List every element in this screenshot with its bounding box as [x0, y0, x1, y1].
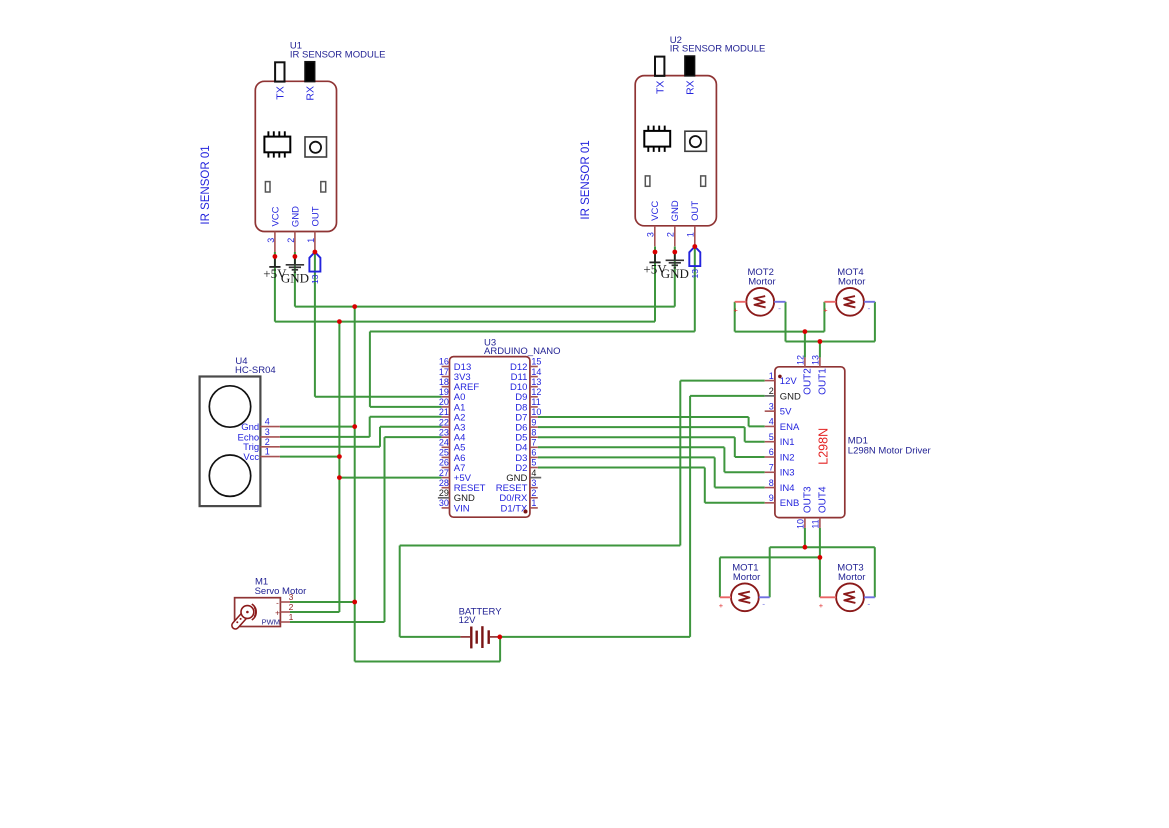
svg-text:GND: GND	[670, 200, 681, 221]
Arduino Nano U3 body	[450, 357, 530, 518]
U3 pin 22 A3 stub	[442, 426, 450, 428]
wire IN2 into pin6	[735, 456, 765, 458]
U3 pin 12 D9 stub	[530, 396, 538, 398]
svg-text:8: 8	[769, 478, 774, 488]
wire U4 Gnd into GND bus	[280, 426, 355, 428]
wire MOT2 right drop	[785, 302, 787, 342]
wire U4 Vcc into +5V bus	[280, 456, 340, 458]
U3 pin 3 RESET stub	[530, 487, 538, 489]
svg-text:22: 22	[439, 417, 449, 427]
svg-text:14: 14	[531, 367, 541, 377]
MD1 pin 10 OUT3 stub	[804, 518, 806, 528]
MD1 pin 1 12V stub	[765, 380, 775, 382]
wire D6-IN1 vertical	[744, 427, 746, 442]
wire A4 into pin23	[385, 436, 442, 438]
wire MOT2 left drop	[734, 302, 736, 332]
junction U1 GND	[293, 254, 298, 259]
U4 pin 4 Gnd stub	[260, 426, 280, 428]
wire A1 into pin20	[370, 406, 442, 408]
wire U2OUT to A1 horizontal	[370, 331, 695, 333]
wire Echo to A2 vertical	[369, 417, 371, 437]
MOT1 left terminal lead	[720, 596, 731, 598]
net label flag 13 at U2 OUT	[689, 247, 700, 279]
svg-text:1: 1	[306, 238, 316, 243]
wire MOT1 right drop	[769, 547, 771, 597]
servo motor M1 body	[235, 598, 281, 627]
svg-text:OUT3: OUT3	[802, 486, 813, 513]
junction OUT1	[818, 339, 823, 344]
U3 pin 15 D12 stub	[530, 366, 538, 368]
wire OUT3 from pin10	[804, 528, 806, 547]
svg-text:IR SENSOR 01: IR SENSOR 01	[200, 145, 212, 224]
svg-text:25: 25	[439, 448, 449, 458]
svg-text:6: 6	[531, 448, 536, 458]
svg-text:-: -	[276, 599, 279, 608]
wire A1 vertical	[369, 332, 371, 407]
wire U4 Trig horizontal	[280, 446, 380, 448]
svg-text:13: 13	[531, 377, 541, 387]
U3 pin 8 D5 stub	[530, 436, 538, 438]
wire U1 GND drop	[294, 252, 296, 307]
wire 12V horizontal	[400, 545, 681, 547]
svg-text:16: 16	[439, 357, 449, 367]
svg-text:GND: GND	[661, 266, 689, 281]
U2 IC chip drawing	[644, 126, 670, 152]
U1 pad drawings	[265, 182, 325, 192]
svg-text:1: 1	[769, 371, 774, 381]
MOT4 left terminal lead	[824, 301, 836, 303]
wire ENA into pin4	[749, 425, 765, 427]
U3 pin 11 D8 stub	[530, 406, 538, 408]
wire U1 VCC drop	[274, 252, 276, 322]
svg-text:IR SENSOR 01: IR SENSOR 01	[580, 140, 592, 219]
svg-text:PWM: PWM	[262, 618, 280, 627]
wire D5 horizontal	[538, 436, 735, 438]
svg-text:2: 2	[666, 232, 676, 237]
U3 pin 5 D2 stub	[530, 467, 538, 469]
svg-text:OUT: OUT	[690, 201, 701, 221]
svg-text:+: +	[819, 601, 824, 610]
wire IN4 into pin8	[715, 487, 765, 489]
wire IN1 into pin5	[745, 441, 765, 443]
wire +5V bus horizontal	[275, 321, 655, 323]
MOT2 winding zigzag	[754, 296, 765, 307]
wire D2-ENB vertical	[704, 468, 706, 503]
svg-text:3: 3	[531, 478, 536, 488]
MD1 pin 2 GND stub	[765, 395, 775, 397]
M1 horn arm drawing	[235, 612, 247, 625]
junction +5V at U4 Vcc	[337, 454, 342, 459]
svg-text:+: +	[734, 305, 739, 314]
wire D5-IN2 vertical	[734, 437, 736, 457]
svg-text:12V: 12V	[459, 615, 477, 626]
M1 pin 1 stub	[280, 621, 290, 623]
svg-text:11: 11	[811, 519, 821, 528]
svg-text:2: 2	[265, 437, 270, 447]
U2 TX connector	[655, 57, 664, 76]
M1 horn centre dot	[246, 611, 249, 614]
wire D3 horizontal	[538, 456, 715, 458]
wire +5V bus vertical	[338, 322, 340, 612]
U3 pin 4 GND stub	[530, 477, 541, 479]
svg-text:Vcc: Vcc	[243, 452, 259, 463]
svg-text:3: 3	[289, 592, 294, 602]
MOT4 right terminal lead	[864, 301, 875, 303]
U3 pin 28 RESET stub	[442, 487, 450, 489]
wire D3-IN4 vertical	[714, 457, 716, 487]
wire OUT3 horizontal	[770, 546, 875, 548]
svg-text:27: 27	[439, 468, 449, 478]
svg-text:OUT4: OUT4	[817, 486, 828, 513]
motor MOT4 circle	[836, 288, 864, 316]
svg-text:21: 21	[439, 407, 449, 417]
svg-text:5V: 5V	[780, 407, 792, 418]
U3 pin 1 D1/TX stub	[530, 507, 538, 509]
MD1 pin 6 IN2 stub	[765, 456, 775, 458]
U3 pin 10 D7 stub	[530, 416, 538, 418]
wire U4 Echo horizontal	[280, 436, 370, 438]
wire U2 VCC drop	[654, 247, 656, 322]
MD1 pin 12 OUT2 stub	[804, 357, 806, 366]
junction +5V at pin27 wire	[337, 475, 342, 480]
svg-text:7: 7	[531, 438, 536, 448]
svg-text:1: 1	[531, 498, 536, 508]
svg-text:13: 13	[690, 269, 700, 279]
svg-text:29: 29	[439, 488, 449, 498]
wire D4 horizontal	[538, 446, 725, 448]
U2 pin 1 stub	[694, 226, 696, 247]
U1 pin 1 stub	[314, 232, 316, 253]
wire GND bus vertical	[354, 307, 356, 662]
U3 pin 20 A1 stub	[442, 406, 450, 408]
MD1 pin 5 IN1 stub	[765, 441, 775, 443]
U2 pad drawings	[645, 176, 705, 186]
svg-text:OUT1: OUT1	[817, 368, 828, 395]
U3 pin 18 AREF stub	[442, 386, 450, 388]
wire OUT4 from pin11	[819, 528, 821, 558]
wire IN3 into pin7	[724, 471, 764, 473]
MOT1 right terminal lead	[759, 596, 770, 598]
svg-text:-: -	[867, 303, 870, 313]
wire A2 into pin21	[370, 416, 442, 418]
svg-text:17: 17	[439, 367, 449, 377]
svg-text:Mortor: Mortor	[733, 572, 760, 583]
U3 pin 23 A4 stub	[442, 436, 450, 438]
U1 pin 3 stub	[274, 232, 276, 253]
svg-text:GND: GND	[780, 391, 801, 402]
svg-text:1: 1	[686, 232, 696, 237]
wire ENB into pin9	[705, 502, 765, 504]
U1 LED drawing	[305, 137, 327, 157]
U1 pin 2 stub	[294, 232, 296, 253]
svg-text:7: 7	[769, 462, 774, 472]
svg-text:3: 3	[266, 238, 276, 243]
wire OUT2 horizontal	[735, 331, 825, 333]
M1 pin 3 stub	[280, 601, 290, 603]
wire Trig to A3 vertical	[379, 427, 381, 447]
U4 pin 1 Vcc stub	[260, 456, 280, 458]
svg-text:-: -	[867, 598, 870, 608]
wire D7-ENA vertical	[748, 417, 750, 426]
svg-text:28: 28	[439, 478, 449, 488]
U3 pin 21 A2 stub	[442, 416, 450, 418]
svg-text:12: 12	[531, 387, 541, 397]
svg-text:IN3: IN3	[780, 468, 795, 479]
svg-text:Mortor: Mortor	[748, 276, 775, 287]
svg-text:20: 20	[439, 397, 449, 407]
U3 pin 13 D10 stub	[530, 386, 538, 388]
U3 pin1 origin dot	[524, 510, 528, 514]
motor MOT2 circle	[746, 288, 774, 316]
svg-text:4: 4	[531, 468, 536, 478]
svg-text:Mortor: Mortor	[838, 572, 865, 583]
motor MOT3 circle	[836, 583, 864, 611]
M1 horn arm dots	[236, 621, 238, 623]
svg-text:3: 3	[646, 232, 656, 237]
svg-text:VCC: VCC	[650, 201, 661, 221]
U3 pin 7 D4 stub	[530, 446, 538, 448]
svg-text:Mortor: Mortor	[838, 276, 865, 287]
wire GND bottom horizontal	[355, 661, 500, 663]
svg-text:HC-SR04: HC-SR04	[235, 365, 276, 376]
svg-text:15: 15	[531, 357, 541, 367]
svg-text:IR SENSOR MODULE: IR SENSOR MODULE	[670, 44, 766, 55]
wire U2 GND drop	[674, 247, 676, 307]
MD1 pin 4 ENA stub	[765, 425, 775, 427]
wire A0 into pin19	[315, 396, 442, 398]
svg-text:-: -	[778, 303, 781, 313]
svg-text:13: 13	[310, 274, 320, 284]
wire D2 horizontal	[538, 467, 705, 469]
wire OUT1 into pin13	[819, 342, 821, 358]
wire MOT3 right drop	[874, 547, 876, 597]
wire servo pin1 horizontal	[290, 621, 385, 623]
svg-text:4: 4	[265, 417, 270, 427]
wire GND bus horizontal	[295, 306, 675, 308]
U3 pin 9 D6 stub	[530, 426, 538, 428]
ultrasonic sensor U4 HC-SR04 body	[200, 377, 261, 507]
U2 pin 2 stub	[674, 226, 676, 247]
MD1 pin 3 5V stub	[765, 410, 775, 412]
wire MOT1 left drop	[719, 557, 721, 597]
MOT4 winding zigzag	[844, 296, 855, 307]
wire servo pin2 horizontal	[290, 611, 339, 613]
junction U1 OUT	[313, 250, 318, 255]
wire MOT3 left drop	[819, 557, 821, 597]
U1 TX connector	[275, 62, 284, 81]
svg-text:5: 5	[769, 432, 774, 442]
svg-text:3: 3	[769, 401, 774, 411]
MD1 pin 9 ENB stub	[765, 502, 775, 504]
wire servo pin3 horizontal	[290, 601, 355, 603]
wire U2 OUT drop	[694, 247, 696, 332]
U2 pin 3 stub	[654, 226, 656, 247]
U3 pin 29 GND stub	[438, 497, 450, 499]
MOT3 winding zigzag	[844, 592, 855, 603]
U1 IC chip drawing	[264, 131, 290, 157]
MOT3 right terminal lead	[864, 596, 875, 598]
svg-text:2: 2	[286, 238, 296, 243]
wire GND right vertical	[689, 396, 691, 637]
MD1 pin 8 IN4 stub	[765, 487, 775, 489]
wire OUT1 horizontal	[786, 341, 875, 343]
svg-text:30: 30	[439, 498, 449, 508]
junction U2 GND	[672, 250, 677, 255]
svg-text:GND: GND	[281, 271, 309, 286]
svg-text:TX: TX	[655, 81, 667, 94]
wire MOT4 right drop	[874, 302, 876, 342]
wire battery left lead	[400, 636, 461, 638]
MD1 pin 11 OUT4 stub	[819, 518, 821, 528]
wire D4-IN3 vertical	[723, 447, 725, 472]
wire MOT4 left drop	[823, 302, 825, 332]
U2 RX connector	[685, 56, 695, 76]
svg-text:-: -	[762, 598, 765, 608]
+5V power symbol at U2 VCC	[643, 252, 667, 277]
svg-text:2: 2	[289, 602, 294, 612]
svg-text:24: 24	[439, 438, 449, 448]
U3 pin 26 A7 stub	[442, 467, 450, 469]
svg-text:10: 10	[796, 519, 806, 529]
wire U1 OUT drop	[314, 252, 316, 397]
svg-text:L298N: L298N	[817, 428, 831, 465]
svg-text:IN2: IN2	[780, 452, 795, 463]
svg-text:10: 10	[531, 407, 541, 417]
wire OUT2 into pin12	[804, 332, 806, 358]
U3 pin 27 +5V stub	[442, 477, 450, 479]
U3 pin 2 D0/RX stub	[530, 497, 538, 499]
junction OUT3	[803, 545, 808, 550]
wire 12V vertical	[679, 381, 681, 546]
wire GND into pin2	[690, 395, 765, 397]
junction OUT2	[803, 329, 808, 334]
junction GND at servo	[352, 600, 357, 605]
svg-text:6: 6	[769, 447, 774, 457]
svg-text:OUT: OUT	[310, 206, 321, 226]
svg-text:IN1: IN1	[780, 437, 795, 448]
svg-text:+: +	[275, 609, 280, 618]
U3 pin 6 D3 stub	[530, 456, 538, 458]
M1 pin 2 stub	[280, 611, 290, 613]
MOT2 right terminal lead	[774, 301, 785, 303]
M1 horn hub circle	[241, 606, 254, 619]
svg-text:GND: GND	[290, 206, 301, 227]
U3 pin 17 3V3 stub	[442, 376, 450, 378]
M1 horn arc	[252, 604, 256, 620]
svg-text:TX: TX	[275, 86, 287, 99]
wire servo PWM vertical	[384, 437, 386, 622]
wire battery right drop	[499, 637, 501, 662]
wire 12V into pin1	[680, 380, 764, 382]
svg-text:ENA: ENA	[780, 422, 800, 433]
junction GND at U4 Gnd	[352, 424, 357, 429]
svg-text:9: 9	[769, 493, 774, 503]
MOT1 winding zigzag	[739, 592, 750, 603]
IR sensor module U1 body	[255, 81, 336, 231]
U4 transducer circle top	[209, 386, 250, 427]
motor driver MD1 L298N body	[775, 367, 845, 518]
junction +5V bus top	[337, 319, 342, 324]
svg-text:VIN: VIN	[454, 503, 470, 514]
IR sensor module U1	[255, 41, 385, 253]
svg-text:RX: RX	[684, 80, 696, 95]
U3 pin 25 A6 stub	[442, 456, 450, 458]
wire +5V into pin27	[339, 477, 441, 479]
svg-text:9: 9	[531, 417, 536, 427]
GND power symbol at U2 GND	[661, 252, 689, 281]
svg-text:+: +	[823, 305, 828, 314]
svg-text:4: 4	[769, 417, 774, 427]
svg-text:IR SENSOR MODULE: IR SENSOR MODULE	[290, 49, 386, 60]
+5V power symbol at U1 VCC	[263, 257, 287, 282]
svg-text:ENB: ENB	[780, 498, 800, 509]
svg-text:11: 11	[531, 397, 540, 407]
MD1 pin 7 IN3 stub	[765, 471, 775, 473]
svg-text:1: 1	[265, 447, 270, 457]
battery BT1 12V symbol	[460, 626, 499, 648]
U3 pin 19 A0 stub	[442, 396, 450, 398]
junction U1 VCC	[273, 254, 278, 259]
U3 pin 16 D13 stub	[442, 366, 450, 368]
svg-text:23: 23	[439, 427, 449, 437]
wire D7 horizontal	[538, 416, 749, 418]
wire A3 into pin22	[380, 426, 442, 428]
IR sensor module U2	[635, 35, 765, 247]
svg-text:RX: RX	[305, 86, 317, 101]
IR sensor module U2 body	[635, 76, 716, 226]
wire battery to GND pin2 horizontal	[500, 636, 690, 638]
svg-text:VCC: VCC	[270, 206, 281, 226]
motor MOT1 circle	[731, 583, 759, 611]
svg-text:18: 18	[439, 377, 449, 387]
junction U2 OUT	[692, 244, 697, 249]
U3 pin 30 VIN stub	[442, 507, 450, 509]
svg-text:+: +	[719, 601, 724, 610]
svg-text:OUT2: OUT2	[802, 368, 813, 395]
U1 RX connector	[305, 62, 315, 82]
U3 pin 24 A5 stub	[442, 446, 450, 448]
U4 pin 3 Echo stub	[260, 436, 280, 438]
svg-text:ARDUINO_NANO: ARDUINO_NANO	[484, 346, 561, 357]
MD1 origin dot	[778, 375, 782, 379]
svg-text:8: 8	[531, 427, 536, 437]
U3 pin 14 D11 stub	[530, 376, 538, 378]
svg-text:3: 3	[265, 427, 270, 437]
U4 transducer circle bottom	[209, 455, 250, 496]
MD1 pin 13 OUT1 stub	[819, 357, 821, 366]
junction battery plus	[497, 635, 502, 640]
U2 LED drawing	[685, 131, 707, 151]
svg-text:L298N Motor Driver: L298N Motor Driver	[848, 446, 931, 457]
GND power symbol at U1 GND	[281, 257, 309, 286]
svg-text:13: 13	[811, 355, 821, 365]
junction OUT4	[818, 555, 823, 560]
svg-text:12: 12	[796, 355, 806, 365]
svg-text:Servo Motor: Servo Motor	[255, 586, 307, 597]
svg-text:19: 19	[439, 387, 449, 397]
svg-text:1: 1	[289, 612, 294, 622]
wire D6 horizontal	[538, 426, 745, 428]
svg-text:26: 26	[439, 458, 449, 468]
MOT2 left terminal lead	[735, 301, 747, 303]
svg-text:2: 2	[769, 386, 774, 396]
junction GND bus top	[352, 304, 357, 309]
wire OUT4 horizontal	[720, 556, 820, 558]
svg-text:IN4: IN4	[780, 483, 795, 494]
svg-text:2: 2	[531, 488, 536, 498]
MOT3 left terminal lead	[820, 596, 836, 598]
U4 pin 2 Trig stub	[260, 446, 280, 448]
